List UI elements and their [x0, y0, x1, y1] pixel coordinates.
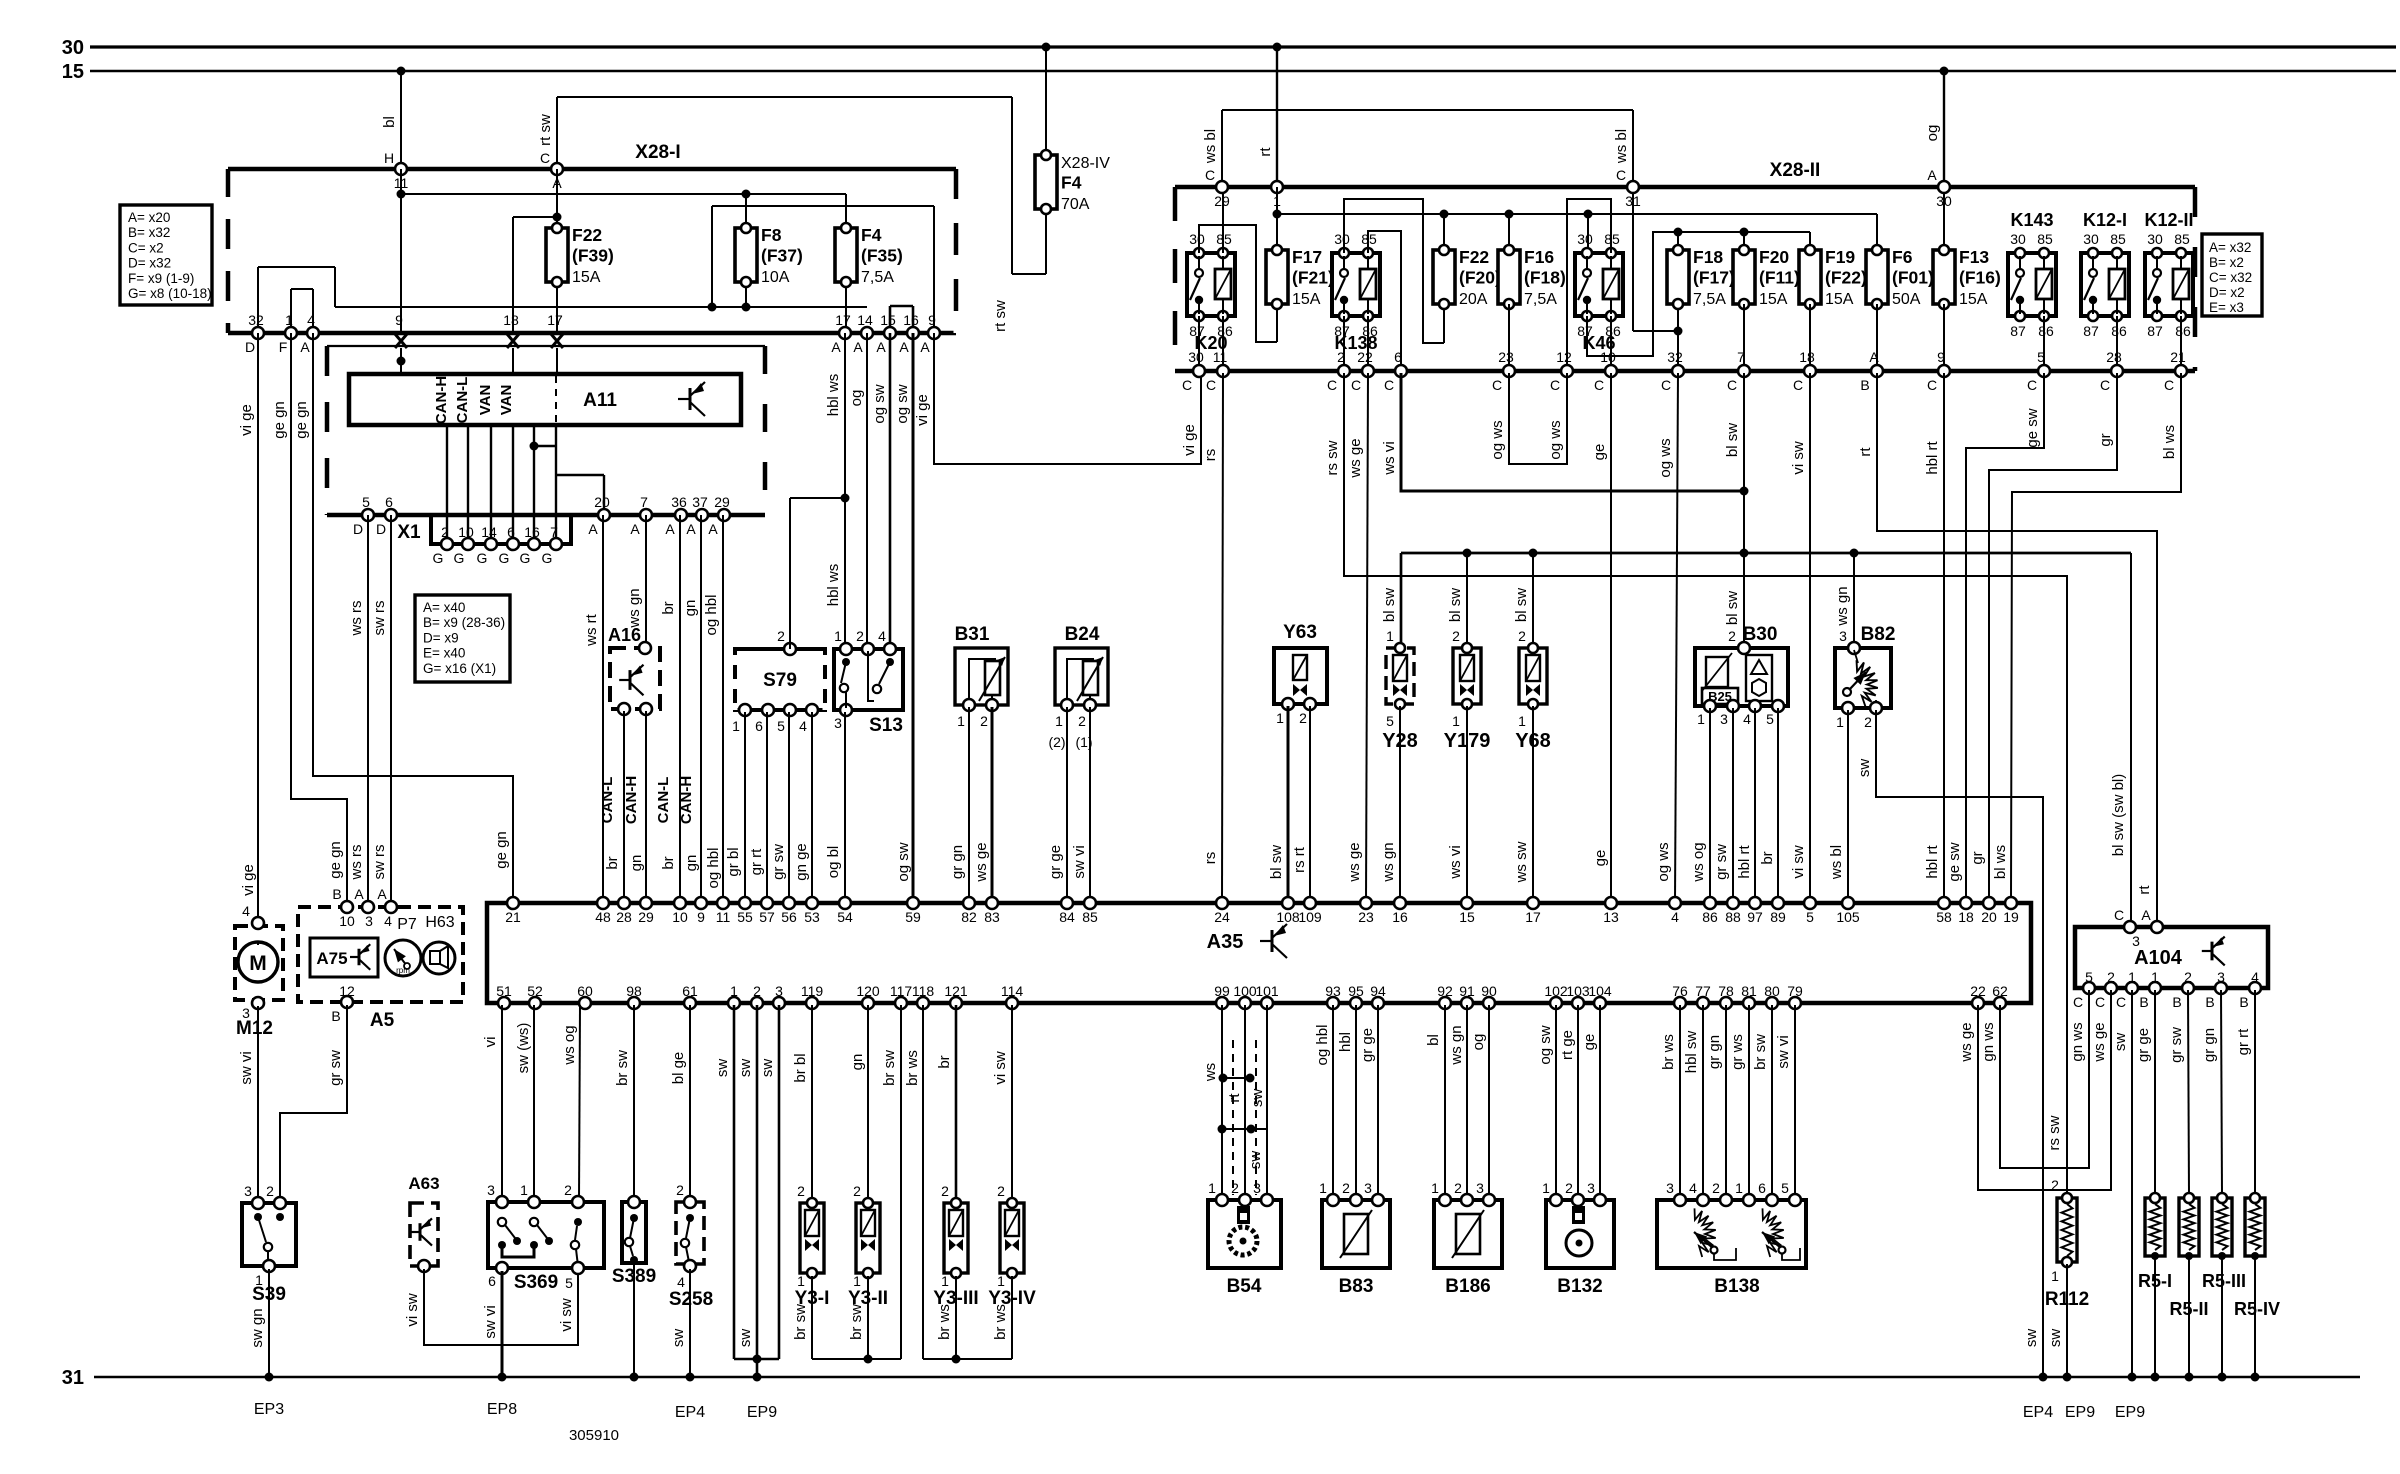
- wires A11 to connector X1: [447, 425, 604, 544]
- svg-text:B: B: [332, 886, 341, 902]
- injector valve Y3-I: [795, 1183, 830, 1309]
- svg-text:hbl: hbl: [1337, 1032, 1354, 1052]
- svg-text:100: 100: [1233, 983, 1257, 999]
- svg-text:3: 3: [1587, 1180, 1595, 1196]
- svg-text:3: 3: [834, 715, 842, 731]
- svg-text:(F20): (F20): [1459, 268, 1501, 288]
- X28-I bottom pins left group 32/1/4: [245, 312, 319, 355]
- svg-text:br sw: br sw: [848, 1304, 865, 1340]
- svg-text:59: 59: [905, 909, 921, 925]
- svg-text:14: 14: [857, 312, 873, 328]
- svg-text:H63: H63: [425, 914, 454, 931]
- svg-text:ge: ge: [1591, 444, 1608, 461]
- svg-text:B186: B186: [1445, 1276, 1490, 1297]
- temperature sensor B24: [1048, 624, 1108, 750]
- svg-text:EP9: EP9: [2065, 1404, 2095, 1421]
- svg-text:C: C: [1727, 377, 1737, 393]
- svg-text:C: C: [1616, 167, 1626, 183]
- svg-text:30: 30: [2083, 231, 2099, 247]
- svg-text:21: 21: [2170, 349, 2186, 365]
- resistor R112: [2045, 1177, 2089, 1310]
- connector X1 box: [397, 515, 571, 566]
- svg-text:53: 53: [804, 909, 820, 925]
- wire rs sw X28-II pin 2 to resistor R112: [1324, 373, 2067, 1196]
- svg-text:28: 28: [616, 909, 632, 925]
- wire vi ge X28-I pin 9A to X28-II pin 30C: [914, 333, 1201, 464]
- svg-text:ws og: ws og: [561, 1025, 578, 1065]
- speed sensor B132: [1542, 1180, 1614, 1297]
- svg-text:ge gn: ge gn: [493, 831, 510, 869]
- svg-text:(F21): (F21): [1292, 268, 1334, 288]
- svg-text:og hbl: og hbl: [705, 848, 722, 889]
- svg-text:10: 10: [339, 913, 355, 929]
- fuse F19 (F22) 15A: [1809, 246, 1811, 308]
- svg-text:F8: F8: [761, 225, 782, 245]
- svg-text:3: 3: [1364, 1180, 1372, 1196]
- temperature sensor B31: [955, 624, 1008, 729]
- svg-text:bl sw: bl sw: [1447, 588, 1464, 622]
- A35 bottom pins: [496, 983, 2008, 1009]
- switch S13: [834, 628, 903, 736]
- svg-text:B: B: [331, 1008, 340, 1024]
- svg-text:B= x2: B= x2: [2209, 255, 2244, 270]
- svg-text:94: 94: [1370, 983, 1386, 999]
- svg-text:85: 85: [2174, 231, 2190, 247]
- svg-text:85: 85: [1216, 231, 1232, 247]
- svg-text:bl: bl: [1425, 1034, 1442, 1046]
- svg-text:30: 30: [2010, 231, 2026, 247]
- svg-text:9: 9: [697, 909, 705, 925]
- svg-text:103: 103: [1566, 983, 1590, 999]
- svg-text:7: 7: [1737, 349, 1745, 365]
- svg-text:og: og: [848, 390, 865, 407]
- wire ge X28-II pin 10 to A35 pin 13: [1591, 373, 1611, 901]
- svg-text:bl sw: bl sw: [1268, 845, 1285, 879]
- svg-text:52: 52: [527, 983, 543, 999]
- svg-text:105: 105: [1836, 909, 1860, 925]
- svg-text:2: 2: [856, 628, 864, 644]
- svg-text:C: C: [2114, 907, 2124, 923]
- svg-text:2: 2: [1565, 1180, 1573, 1196]
- switch S258 (dashed): [669, 1182, 713, 1310]
- svg-text:3: 3: [244, 1183, 252, 1199]
- svg-text:5: 5: [2085, 969, 2093, 985]
- solenoid valve Y63: [1274, 622, 1327, 726]
- wire ws sw Y68 to A35 pin 17: [1513, 706, 1533, 901]
- svg-text:ge sw: ge sw: [1946, 842, 1963, 881]
- ground junctions and labels on bus 31: [254, 1373, 2260, 1422]
- svg-text:gn: gn: [683, 855, 700, 872]
- svg-text:og sw: og sw: [1537, 1025, 1554, 1064]
- legend box right connector key: [2202, 234, 2262, 316]
- svg-text:ws rs: ws rs: [348, 601, 365, 637]
- svg-text:B: B: [2239, 994, 2248, 1010]
- svg-text:gr ge: gr ge: [1359, 1028, 1376, 1062]
- svg-text:93: 93: [1325, 983, 1341, 999]
- wire vi sw A63 to S369 pin 5: [404, 1269, 578, 1345]
- svg-text:108: 108: [1276, 909, 1300, 925]
- svg-text:br sw: br sw: [1752, 1034, 1769, 1070]
- svg-text:rs sw: rs sw: [1324, 440, 1341, 475]
- svg-text:6: 6: [488, 1273, 496, 1289]
- svg-text:ws ge: ws ge: [1347, 438, 1364, 478]
- wire br sw A35 98 to switch S389: [614, 1005, 634, 1200]
- wires B30 to A35 86/88/97/89: [1690, 708, 1778, 901]
- svg-text:85: 85: [1361, 231, 1377, 247]
- wire sw gn S39 to ground EP3: [249, 1269, 269, 1375]
- svg-text:B: B: [1860, 377, 1869, 393]
- control unit A104 box: [2075, 907, 2268, 988]
- fuse F17 (F21) 15A: [1276, 246, 1278, 308]
- svg-text:sw: sw: [737, 1059, 754, 1078]
- svg-text:4: 4: [2251, 969, 2259, 985]
- svg-text:86: 86: [2111, 323, 2127, 339]
- svg-text:C: C: [1661, 377, 1671, 393]
- X28-I bottom splice pins 9/18/17: [395, 312, 563, 348]
- A35 top pins: [505, 897, 2019, 925]
- svg-text:sw: sw: [1249, 1089, 1266, 1108]
- svg-text:A: A: [876, 339, 886, 355]
- svg-text:5: 5: [565, 1275, 573, 1291]
- svg-text:12: 12: [1556, 349, 1572, 365]
- svg-text:3: 3: [487, 1182, 495, 1198]
- wires R5 resistors to bus 31: [2155, 1256, 2255, 1375]
- wire ws gn pin 7 to A16: [626, 515, 646, 645]
- svg-text:119: 119: [801, 983, 824, 999]
- svg-text:6: 6: [1758, 1180, 1766, 1196]
- wires A104 B pins to glow plug resistors: [2135, 990, 2255, 1196]
- svg-text:20: 20: [594, 494, 610, 510]
- wire K138 85 jumper to pin 6: [1368, 231, 1401, 371]
- svg-text:F4: F4: [1061, 173, 1082, 193]
- svg-text:rt: rt: [1857, 447, 1874, 457]
- svg-text:20: 20: [1981, 909, 1997, 925]
- svg-text:ge sw: ge sw: [2024, 408, 2041, 447]
- svg-text:br bl: br bl: [792, 1053, 809, 1082]
- svg-text:F18: F18: [1693, 247, 1723, 267]
- svg-text:21: 21: [505, 909, 521, 925]
- svg-text:bl ws: bl ws: [2161, 425, 2178, 459]
- svg-text:114: 114: [1001, 983, 1024, 999]
- wires A35 121/114 to valves Y3-III Y3-IV: [936, 1005, 1012, 1200]
- svg-text:5: 5: [1806, 909, 1814, 925]
- fuse F8 (F37) 10A: [745, 224, 747, 286]
- svg-text:A= x20: A= x20: [128, 210, 170, 225]
- svg-text:A: A: [300, 339, 310, 355]
- svg-text:2: 2: [853, 1183, 861, 1199]
- svg-text:109: 109: [1298, 909, 1322, 925]
- svg-text:30: 30: [1577, 231, 1593, 247]
- wire sw B82 pin 2 to ground EP4: [1856, 710, 2043, 1375]
- svg-text:2: 2: [777, 628, 785, 644]
- svg-text:bl ws: bl ws: [1992, 845, 2009, 879]
- svg-text:16: 16: [1392, 909, 1408, 925]
- legend box X1 key: [415, 595, 510, 682]
- svg-text:sw: sw: [2112, 1033, 2129, 1052]
- svg-text:og sw: og sw: [895, 842, 912, 881]
- legend box left (connector key X28-I): [120, 205, 212, 305]
- connector X28-I box: [228, 142, 956, 333]
- svg-text:gr: gr: [1969, 851, 1986, 864]
- svg-text:1: 1: [797, 1273, 805, 1289]
- svg-text:23: 23: [1498, 349, 1514, 365]
- wire og sw X28-I pin 15A to S13 pin 4: [871, 333, 890, 646]
- svg-text:EP4: EP4: [2023, 1404, 2053, 1421]
- svg-text:86: 86: [2175, 323, 2191, 339]
- svg-text:2: 2: [1452, 628, 1460, 644]
- svg-text:br sw: br sw: [614, 1050, 631, 1086]
- svg-text:og bl: og bl: [825, 846, 842, 879]
- svg-text:F= x9 (1-9): F= x9 (1-9): [128, 271, 194, 286]
- svg-text:EP3: EP3: [254, 1401, 284, 1418]
- glow plug resistor R5-IV: [2234, 1193, 2280, 1319]
- wires A35 76/77/78/81/80/79 to B138: [1660, 1005, 1795, 1197]
- wires A35 93/95/94 to B83: [1314, 1005, 1378, 1197]
- svg-text:sw: sw: [737, 1329, 754, 1348]
- fuse F4 X28-IV 70A: [1035, 43, 1110, 215]
- wire ws bl bridge X28-II pins 29 and 31: [1202, 110, 1633, 187]
- svg-text:4: 4: [1743, 711, 1751, 727]
- svg-text:VAN: VAN: [477, 385, 494, 416]
- svg-text:G: G: [499, 550, 510, 566]
- svg-text:C: C: [2027, 377, 2037, 393]
- svg-text:1: 1: [285, 312, 293, 328]
- svg-text:ws bl: ws bl: [1202, 129, 1219, 164]
- svg-text:87: 87: [2010, 323, 2026, 339]
- X28-II top pins: [1205, 167, 1952, 209]
- svg-text:bl sw (sw bl): bl sw (sw bl): [2110, 774, 2127, 857]
- svg-text:30: 30: [2147, 231, 2163, 247]
- svg-text:EP9: EP9: [747, 1404, 777, 1421]
- wires B31 to A35 82/83: [949, 707, 992, 901]
- svg-text:M12: M12: [236, 1018, 273, 1039]
- wire vi sw X28-II pin 18 to A35 pin 5: [1790, 373, 1810, 901]
- wires A35 102/103/104 to B132: [1537, 1005, 1600, 1197]
- svg-text:F22: F22: [572, 225, 602, 245]
- svg-text:A: A: [630, 521, 640, 537]
- svg-text:C: C: [1492, 377, 1502, 393]
- svg-text:ws rs: ws rs: [348, 845, 365, 881]
- svg-text:1: 1: [1836, 714, 1844, 730]
- wire hbl rt X28-II pin 9 to A35 pin 58: [1924, 373, 1944, 901]
- svg-text:2: 2: [1231, 1180, 1239, 1196]
- svg-text:36: 36: [671, 494, 687, 510]
- svg-text:R5-III: R5-III: [2202, 1271, 2246, 1291]
- svg-text:61: 61: [682, 983, 698, 999]
- svg-text:F22: F22: [1459, 247, 1489, 267]
- svg-text:9: 9: [928, 312, 936, 328]
- svg-text:5: 5: [1781, 1180, 1789, 1196]
- svg-text:3: 3: [1253, 1180, 1261, 1196]
- wire sw A104 pin 1C to ground EP9: [2112, 990, 2132, 1375]
- svg-text:85: 85: [2110, 231, 2126, 247]
- svg-text:gn ws: gn ws: [2069, 1022, 2086, 1061]
- svg-text:1: 1: [1542, 1180, 1550, 1196]
- svg-text:(F37): (F37): [761, 246, 803, 266]
- solenoid valve Y179: [1444, 628, 1491, 752]
- svg-text:1: 1: [1276, 710, 1284, 726]
- svg-text:CAN-L: CAN-L: [655, 777, 672, 824]
- svg-text:1: 1: [1431, 1180, 1439, 1196]
- svg-text:81: 81: [1741, 983, 1757, 999]
- wire rt X28-II pin A to A104 pin A: [1857, 373, 2157, 925]
- svg-text:305910: 305910: [569, 1427, 619, 1444]
- wire ws vi X28-II pin 6 to bl sw node: [1381, 373, 1744, 491]
- wire ws ge X28-II pin 22 to A35 pin 23: [1346, 373, 1368, 901]
- svg-text:A: A: [686, 521, 696, 537]
- svg-text:2: 2: [2184, 969, 2192, 985]
- svg-text:79: 79: [1787, 983, 1803, 999]
- svg-text:gn: gn: [849, 1054, 866, 1071]
- svg-text:D: D: [353, 521, 363, 537]
- wire ws rs X1 pin 5 to A5 pin A/3: [348, 515, 368, 903]
- svg-text:hbl sw: hbl sw: [1683, 1031, 1700, 1074]
- svg-text:86: 86: [1702, 909, 1718, 925]
- svg-text:C: C: [2095, 994, 2105, 1010]
- svg-text:60: 60: [577, 983, 593, 999]
- svg-text:30: 30: [1188, 349, 1204, 365]
- bus 15 (ignition) horizontal line: [62, 61, 2396, 83]
- svg-text:3: 3: [775, 983, 783, 999]
- svg-text:A35: A35: [1207, 931, 1244, 953]
- svg-text:gr: gr: [2097, 433, 2114, 446]
- wire rt from bus30 to X28-II pin 1: [1257, 43, 1282, 188]
- svg-text:og ws: og ws: [1547, 420, 1564, 459]
- svg-text:31: 31: [62, 1367, 84, 1389]
- svg-text:2: 2: [1864, 714, 1872, 730]
- svg-text:6: 6: [1394, 349, 1402, 365]
- svg-text:CAN-L: CAN-L: [454, 377, 471, 424]
- svg-text:1: 1: [941, 1273, 949, 1289]
- wire F22(F20) bottom to K138 pin 30: [1344, 199, 1444, 343]
- svg-text:sw vi: sw vi: [482, 1305, 499, 1338]
- svg-text:2: 2: [797, 1183, 805, 1199]
- wire og sw X28-I pin 16A to A35 pin 59: [894, 333, 913, 901]
- wire pin 30A to F13 top: [1943, 192, 1945, 250]
- svg-text:sw (ws): sw (ws): [515, 1023, 532, 1074]
- svg-text:C= x2: C= x2: [128, 240, 164, 255]
- svg-text:hbl rt: hbl rt: [1924, 845, 1941, 879]
- svg-text:B82: B82: [1861, 624, 1896, 645]
- svg-text:83: 83: [984, 909, 1000, 925]
- svg-text:br sw: br sw: [792, 1304, 809, 1340]
- svg-text:102: 102: [1544, 983, 1568, 999]
- svg-text:D= x32: D= x32: [128, 256, 171, 271]
- svg-text:2: 2: [1299, 710, 1307, 726]
- svg-text:X28-I: X28-I: [635, 142, 680, 163]
- svg-text:sw vi: sw vi: [1071, 845, 1088, 878]
- svg-text:2: 2: [1712, 1180, 1720, 1196]
- svg-text:F: F: [279, 339, 288, 355]
- svg-text:18: 18: [1799, 349, 1815, 365]
- svg-text:vi sw: vi sw: [558, 1298, 575, 1332]
- svg-text:ws bl: ws bl: [1613, 129, 1630, 164]
- svg-text:85: 85: [1082, 909, 1098, 925]
- svg-text:6: 6: [755, 718, 763, 734]
- svg-text:1: 1: [520, 1182, 528, 1198]
- svg-text:C: C: [1327, 377, 1337, 393]
- svg-text:rs sw: rs sw: [2046, 1115, 2063, 1150]
- svg-text:15: 15: [62, 61, 84, 83]
- svg-text:2: 2: [941, 1183, 949, 1199]
- X28-I pin H/11: [384, 150, 409, 191]
- svg-text:ws gn: ws gn: [626, 588, 643, 628]
- svg-text:2: 2: [676, 1182, 684, 1198]
- svg-text:gr bl: gr bl: [725, 847, 742, 876]
- svg-text:VAN: VAN: [498, 385, 515, 416]
- svg-text:(F39): (F39): [572, 246, 614, 266]
- svg-text:17: 17: [1525, 909, 1541, 925]
- svg-text:84: 84: [1059, 909, 1075, 925]
- svg-text:10: 10: [672, 909, 688, 925]
- svg-text:B132: B132: [1557, 1276, 1602, 1297]
- svg-text:B83: B83: [1339, 1276, 1374, 1297]
- connector X28-II box: [1175, 160, 2195, 371]
- svg-text:1: 1: [2051, 1268, 2059, 1284]
- svg-text:2: 2: [1728, 628, 1736, 644]
- tachometer P7 in A5: [385, 916, 421, 976]
- svg-text:A: A: [665, 521, 675, 537]
- glow plug resistor R5-III: [2202, 1193, 2246, 1291]
- control unit A16 (dashed): [608, 625, 660, 715]
- svg-text:1: 1: [1518, 713, 1526, 729]
- svg-text:C: C: [1793, 377, 1803, 393]
- svg-text:2: 2: [753, 983, 761, 999]
- svg-text:A104: A104: [2134, 947, 2183, 969]
- svg-text:gr sw: gr sw: [1713, 844, 1730, 880]
- svg-text:1: 1: [2151, 969, 2159, 985]
- svg-text:br: br: [936, 1055, 953, 1068]
- svg-text:1: 1: [2128, 969, 2136, 985]
- svg-text:55: 55: [737, 909, 753, 925]
- svg-text:3: 3: [2217, 969, 2225, 985]
- svg-text:sw: sw: [670, 1329, 687, 1348]
- svg-text:15A: 15A: [1825, 291, 1854, 308]
- svg-text:H: H: [384, 150, 394, 166]
- svg-text:ws ge: ws ge: [1346, 842, 1363, 882]
- wire sw vi M12 to S39 pin 3: [238, 1006, 258, 1200]
- svg-text:og sw: og sw: [894, 384, 911, 423]
- svg-text:ws rt: ws rt: [583, 613, 600, 646]
- svg-text:D: D: [245, 339, 255, 355]
- svg-text:sw: sw: [2047, 1329, 2064, 1348]
- svg-text:gr gn: gr gn: [1706, 1035, 1723, 1069]
- svg-text:89: 89: [1770, 909, 1786, 925]
- svg-text:104: 104: [1588, 983, 1612, 999]
- svg-text:Y63: Y63: [1283, 622, 1317, 643]
- svg-text:hbl ws: hbl ws: [825, 374, 842, 417]
- wire K46 87 to F18/F20/F19 feed line: [1587, 228, 1810, 357]
- svg-text:gr rt: gr rt: [2235, 1028, 2252, 1056]
- svg-text:4: 4: [1671, 909, 1679, 925]
- svg-text:118: 118: [912, 983, 935, 999]
- svg-text:K12-II: K12-II: [2144, 210, 2193, 230]
- svg-text:30: 30: [1334, 231, 1350, 247]
- svg-text:16: 16: [903, 312, 919, 328]
- svg-text:br: br: [604, 856, 621, 869]
- svg-text:og ws: og ws: [1657, 438, 1674, 477]
- svg-text:3: 3: [1720, 711, 1728, 727]
- svg-text:C= x32: C= x32: [2209, 270, 2252, 285]
- svg-text:5: 5: [1766, 711, 1774, 727]
- svg-text:120: 120: [856, 983, 880, 999]
- svg-text:ws: ws: [1202, 1063, 1219, 1082]
- svg-text:A: A: [1869, 349, 1879, 365]
- wire rt sw from X28-I pin C to fuse F4 X28-IV: [537, 97, 1046, 332]
- svg-text:CAN-H: CAN-H: [433, 376, 450, 424]
- svg-text:og hbl: og hbl: [703, 595, 720, 636]
- svg-text:F13: F13: [1959, 247, 1989, 267]
